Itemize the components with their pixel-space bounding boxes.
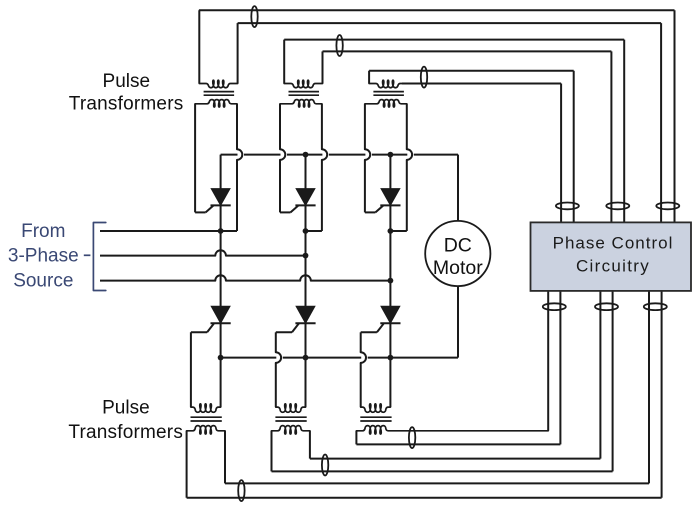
- svg-text:From: From: [21, 221, 65, 242]
- svg-text:Pulse: Pulse: [102, 398, 150, 419]
- svg-text:Transformers: Transformers: [68, 422, 183, 443]
- svg-text:Circuitry: Circuitry: [576, 257, 650, 276]
- svg-text:Motor: Motor: [433, 257, 483, 279]
- svg-text:Source: Source: [13, 271, 73, 292]
- svg-text:Pulse: Pulse: [103, 71, 151, 92]
- svg-text:Phase Control: Phase Control: [553, 234, 674, 253]
- svg-text:Transformers: Transformers: [69, 94, 184, 115]
- svg-text:DC: DC: [444, 235, 472, 257]
- svg-text:3-Phase: 3-Phase: [8, 245, 79, 266]
